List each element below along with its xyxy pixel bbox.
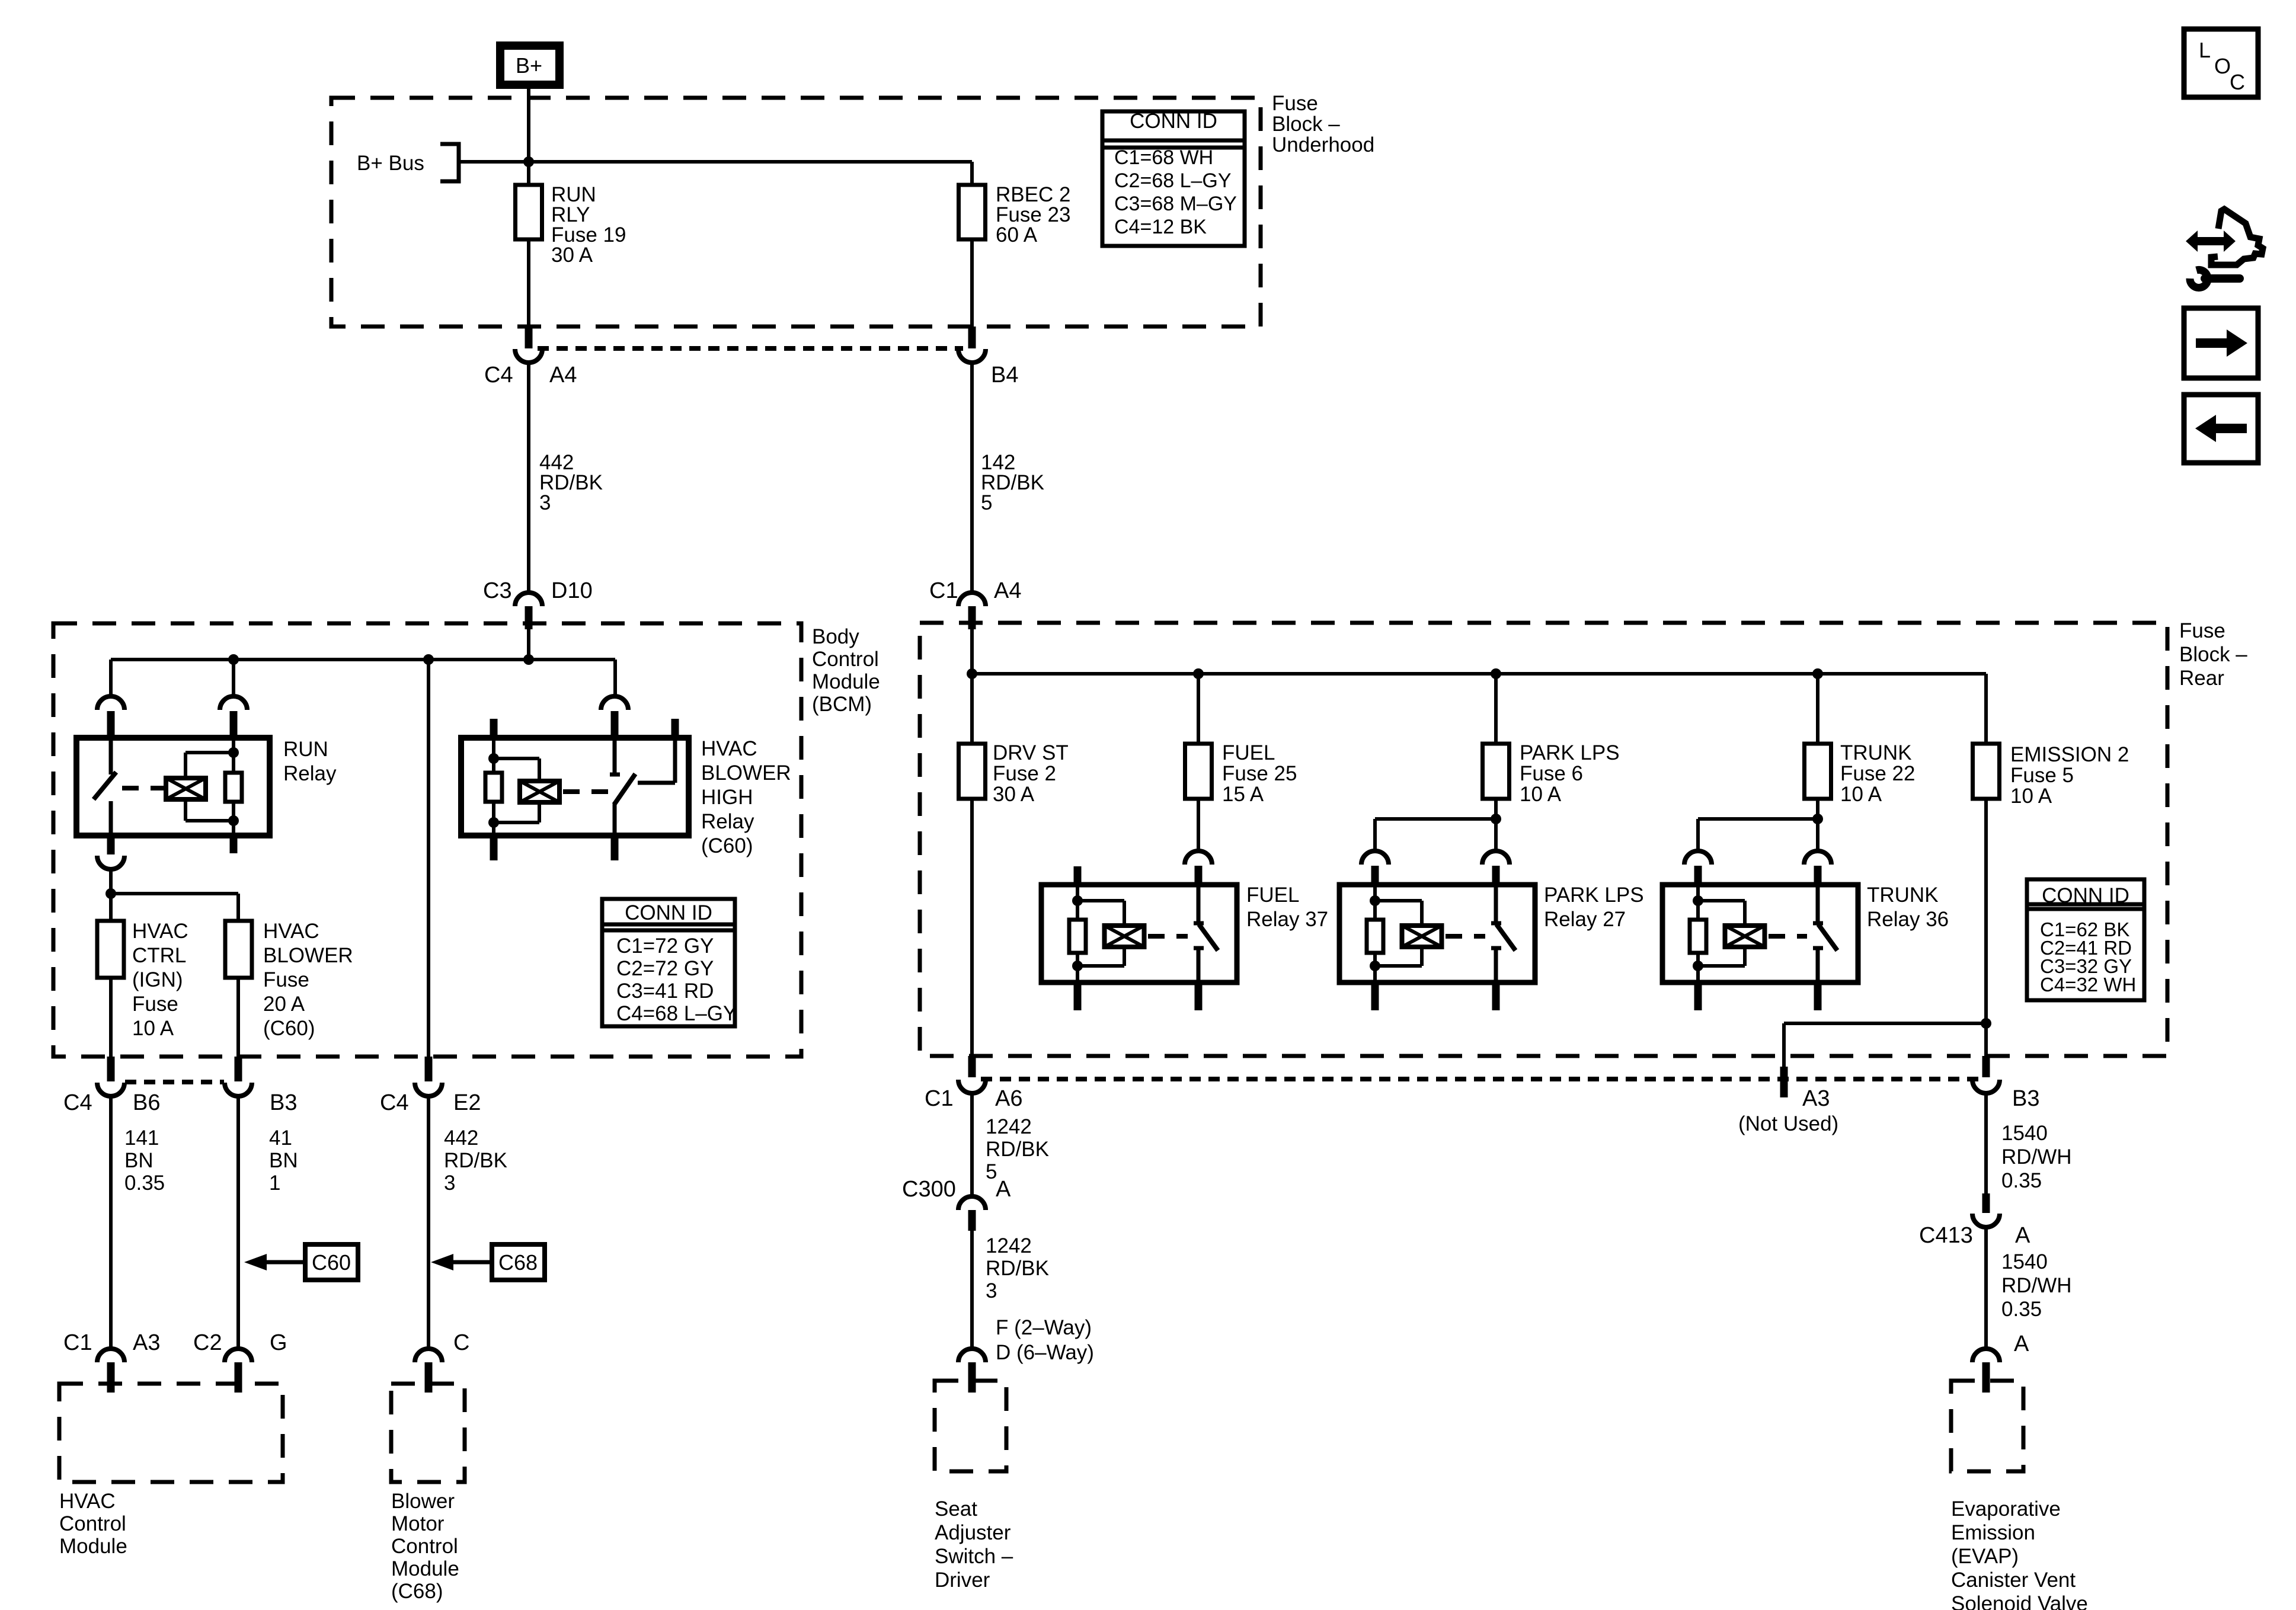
svg-text:BN: BN: [124, 1149, 154, 1172]
svg-text:RD/BK: RD/BK: [444, 1149, 507, 1172]
svg-text:C1: C1: [925, 1086, 954, 1111]
svg-text:D (6–Way): D (6–Way): [996, 1341, 1094, 1364]
svg-text:10 A: 10 A: [1520, 783, 1562, 806]
svg-text:(EVAP): (EVAP): [1951, 1545, 2019, 1568]
svg-text:5: 5: [981, 491, 992, 514]
svg-text:A: A: [2015, 1223, 2030, 1248]
svg-text:RD/WH: RD/WH: [2001, 1145, 2072, 1169]
svg-text:(C60): (C60): [263, 1017, 315, 1040]
svg-text:Fuse 2: Fuse 2: [993, 762, 1056, 785]
svg-text:G: G: [270, 1330, 287, 1355]
svg-text:RD/BK: RD/BK: [986, 1257, 1049, 1280]
svg-text:Driver: Driver: [935, 1569, 990, 1592]
svg-text:Fuse: Fuse: [1272, 92, 1318, 115]
svg-text:C2: C2: [193, 1330, 222, 1355]
svg-text:C1=72 GY: C1=72 GY: [616, 934, 714, 958]
svg-text:E2: E2: [453, 1090, 481, 1115]
svg-text:60 A: 60 A: [996, 223, 1038, 247]
svg-text:Control: Control: [812, 648, 879, 671]
svg-text:B+ Bus: B+ Bus: [357, 152, 424, 175]
svg-text:Rear: Rear: [2179, 667, 2224, 690]
svg-text:F (2–Way): F (2–Way): [996, 1316, 1092, 1339]
svg-text:A3: A3: [1802, 1086, 1830, 1111]
svg-text:C: C: [2230, 70, 2245, 94]
svg-text:BN: BN: [269, 1149, 298, 1172]
svg-text:Control: Control: [391, 1535, 458, 1558]
svg-text:Body: Body: [812, 625, 859, 648]
svg-text:HVAC: HVAC: [263, 920, 319, 943]
svg-text:C3: C3: [483, 578, 512, 603]
svg-text:Module: Module: [812, 670, 880, 693]
svg-text:0.35: 0.35: [2001, 1298, 2042, 1321]
svg-text:Relay: Relay: [283, 762, 337, 785]
svg-text:Fuse 6: Fuse 6: [1520, 762, 1583, 785]
svg-text:TRUNK: TRUNK: [1840, 741, 1912, 764]
svg-text:D10: D10: [551, 578, 593, 603]
svg-text:O: O: [2214, 54, 2231, 78]
svg-text:0.35: 0.35: [2001, 1169, 2042, 1192]
svg-text:(IGN): (IGN): [132, 968, 183, 991]
svg-text:CTRL: CTRL: [132, 944, 186, 967]
svg-text:Motor: Motor: [391, 1512, 445, 1535]
svg-text:PARK LPS: PARK LPS: [1544, 884, 1644, 907]
svg-text:HIGH: HIGH: [701, 786, 753, 809]
svg-text:Seat: Seat: [935, 1497, 977, 1521]
svg-text:Fuse 22: Fuse 22: [1840, 762, 1915, 785]
svg-text:B4: B4: [991, 363, 1018, 388]
svg-text:3: 3: [539, 491, 551, 514]
svg-text:1242: 1242: [986, 1234, 1032, 1257]
svg-text:C4: C4: [484, 363, 513, 388]
svg-text:B3: B3: [270, 1090, 297, 1115]
svg-text:Fuse: Fuse: [132, 993, 178, 1016]
svg-text:RUN: RUN: [283, 738, 328, 761]
svg-text:C4=68 L–GY: C4=68 L–GY: [616, 1002, 737, 1025]
svg-text:PARK LPS: PARK LPS: [1520, 741, 1620, 764]
svg-text:442: 442: [444, 1126, 478, 1150]
svg-text:EMISSION 2: EMISSION 2: [2010, 743, 2129, 766]
svg-text:Emission: Emission: [1951, 1521, 2035, 1544]
svg-text:A: A: [996, 1177, 1011, 1202]
svg-text:(C60): (C60): [701, 834, 753, 857]
svg-text:DRV ST: DRV ST: [993, 741, 1069, 764]
svg-text:Relay 37: Relay 37: [1246, 908, 1328, 931]
svg-text:Switch –: Switch –: [935, 1545, 1013, 1568]
svg-text:HVAC: HVAC: [59, 1490, 116, 1513]
svg-text:A3: A3: [133, 1330, 160, 1355]
svg-text:RD/WH: RD/WH: [2001, 1274, 2072, 1297]
svg-text:Underhood: Underhood: [1272, 133, 1374, 156]
svg-text:Fuse 25: Fuse 25: [1222, 762, 1297, 785]
svg-text:Module: Module: [59, 1535, 127, 1558]
svg-text:C1: C1: [929, 578, 958, 603]
svg-text:20 A: 20 A: [263, 993, 305, 1016]
svg-text:CONN ID: CONN ID: [1130, 110, 1217, 133]
svg-text:1540: 1540: [2001, 1122, 2048, 1145]
svg-text:3: 3: [444, 1172, 455, 1195]
svg-text:(C68): (C68): [391, 1580, 443, 1603]
svg-text:BLOWER: BLOWER: [701, 761, 791, 785]
svg-text:C60: C60: [312, 1250, 351, 1275]
svg-text:Canister Vent: Canister Vent: [1951, 1569, 2076, 1592]
svg-text:1540: 1540: [2001, 1250, 2048, 1273]
svg-text:Module: Module: [391, 1557, 459, 1580]
svg-text:C4: C4: [380, 1090, 409, 1115]
svg-text:A4: A4: [994, 578, 1021, 603]
svg-text:C2=72 GY: C2=72 GY: [616, 957, 714, 980]
svg-text:10 A: 10 A: [132, 1017, 174, 1040]
svg-text:0.35: 0.35: [124, 1172, 165, 1195]
svg-text:Block –: Block –: [1272, 113, 1340, 136]
svg-text:C4=12 BK: C4=12 BK: [1114, 216, 1207, 238]
svg-text:C: C: [453, 1330, 469, 1355]
svg-text:HVAC: HVAC: [701, 737, 757, 760]
svg-text:(BCM): (BCM): [812, 693, 872, 716]
svg-text:CONN ID: CONN ID: [625, 901, 712, 924]
svg-text:Block –: Block –: [2179, 643, 2247, 666]
svg-text:C413: C413: [1919, 1223, 1973, 1248]
svg-text:1242: 1242: [986, 1115, 1032, 1138]
svg-text:(Not Used): (Not Used): [1738, 1112, 1838, 1135]
svg-text:Fuse: Fuse: [263, 968, 309, 991]
svg-text:Fuse: Fuse: [2179, 619, 2225, 642]
svg-text:Solenoid Valve: Solenoid Valve: [1951, 1592, 2088, 1610]
svg-text:Relay 36: Relay 36: [1867, 908, 1949, 931]
svg-text:BLOWER: BLOWER: [263, 944, 353, 967]
svg-text:C4=32 WH: C4=32 WH: [2040, 974, 2136, 996]
svg-text:Evaporative: Evaporative: [1951, 1497, 2061, 1521]
svg-text:Blower: Blower: [391, 1490, 455, 1513]
svg-text:C4: C4: [63, 1090, 92, 1115]
svg-text:A: A: [2014, 1331, 2029, 1356]
svg-text:Control: Control: [59, 1512, 126, 1535]
svg-text:C3=41 RD: C3=41 RD: [616, 980, 714, 1003]
svg-text:HVAC: HVAC: [132, 920, 188, 943]
svg-text:Adjuster: Adjuster: [935, 1521, 1011, 1544]
svg-text:A4: A4: [549, 363, 577, 388]
svg-text:TRUNK: TRUNK: [1867, 884, 1939, 907]
svg-text:L: L: [2199, 38, 2211, 62]
svg-text:141: 141: [124, 1126, 159, 1150]
svg-text:Relay 27: Relay 27: [1544, 908, 1626, 931]
svg-text:10 A: 10 A: [1840, 783, 1882, 806]
svg-text:30 A: 30 A: [551, 244, 593, 267]
svg-text:B3: B3: [2012, 1086, 2039, 1111]
svg-text:A6: A6: [995, 1086, 1022, 1111]
svg-text:B+: B+: [516, 53, 542, 78]
svg-text:RD/BK: RD/BK: [986, 1138, 1049, 1161]
svg-text:C3=68 M–GY: C3=68 M–GY: [1114, 193, 1237, 215]
svg-text:C68: C68: [498, 1250, 538, 1275]
svg-text:C1: C1: [63, 1330, 92, 1355]
svg-text:C1=68 WH: C1=68 WH: [1114, 146, 1213, 169]
svg-text:C2=68 L–GY: C2=68 L–GY: [1114, 169, 1232, 192]
svg-text:FUEL: FUEL: [1222, 741, 1275, 764]
svg-text:Fuse 5: Fuse 5: [2010, 764, 2074, 787]
svg-text:C300: C300: [902, 1177, 956, 1202]
svg-text:FUEL: FUEL: [1246, 884, 1299, 907]
svg-text:3: 3: [986, 1279, 997, 1302]
svg-text:1: 1: [269, 1172, 280, 1195]
svg-text:41: 41: [269, 1126, 292, 1150]
svg-text:15 A: 15 A: [1222, 783, 1264, 806]
svg-text:30 A: 30 A: [993, 783, 1035, 806]
svg-text:CONN ID: CONN ID: [2042, 884, 2129, 907]
svg-text:10 A: 10 A: [2010, 785, 2052, 808]
svg-text:B6: B6: [133, 1090, 160, 1115]
svg-text:Relay: Relay: [701, 810, 754, 833]
